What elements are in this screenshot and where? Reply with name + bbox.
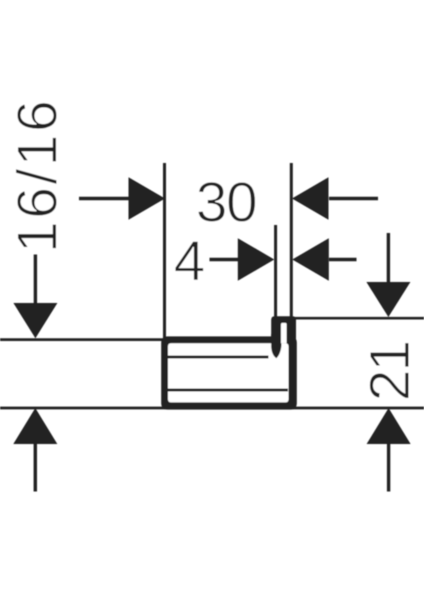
svg-text:21: 21 [358, 342, 422, 401]
svg-text:16/16: 16/16 [6, 98, 70, 253]
svg-text:30: 30 [196, 171, 256, 235]
svg-text:4: 4 [174, 229, 206, 293]
